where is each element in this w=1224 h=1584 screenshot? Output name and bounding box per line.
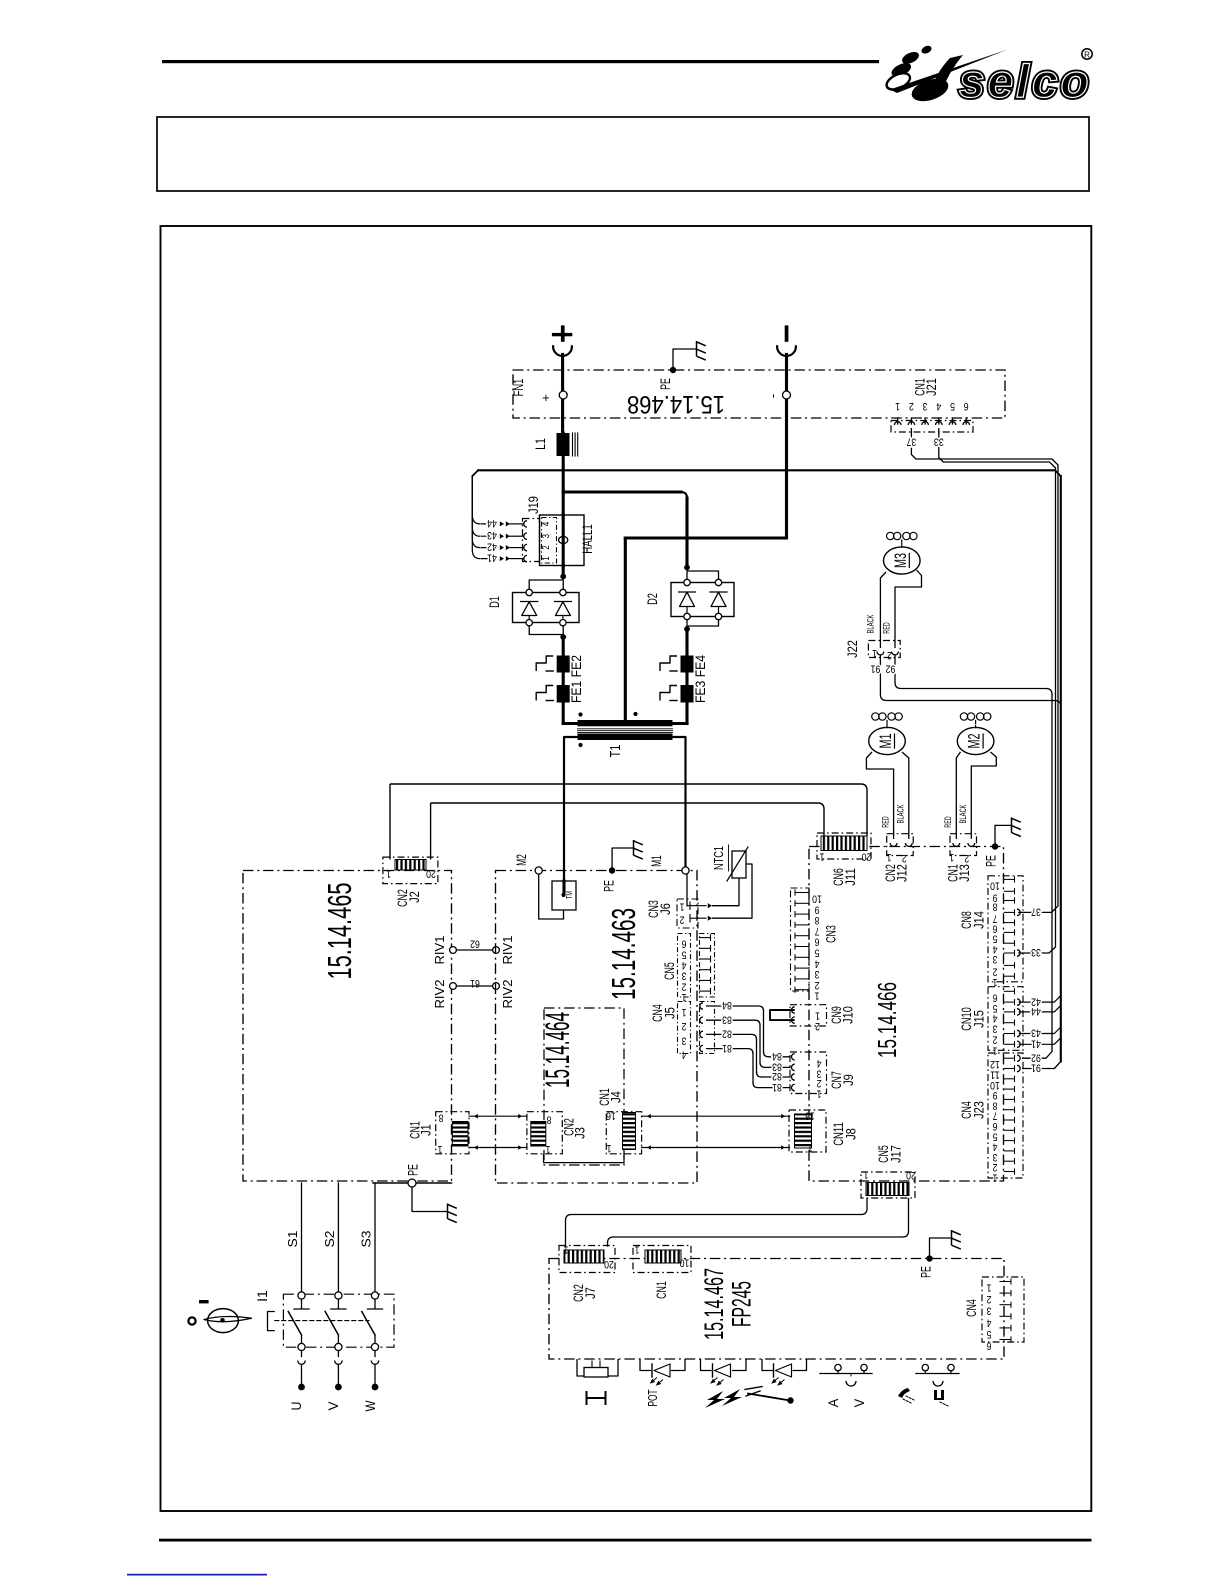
svg-text:1: 1 <box>895 400 900 412</box>
svg-text:2: 2 <box>815 979 820 991</box>
svg-text:J12: J12 <box>895 864 911 882</box>
svg-text:CN1: CN1 <box>654 1281 670 1299</box>
svg-text:J8: J8 <box>844 1128 860 1140</box>
svg-text:16: 16 <box>805 1110 815 1122</box>
svg-text:8: 8 <box>439 1112 444 1124</box>
svg-text:V: V <box>852 1399 867 1408</box>
svg-text:4: 4 <box>936 400 941 412</box>
svg-text:3: 3 <box>682 970 687 982</box>
svg-text:4: 4 <box>540 522 552 527</box>
svg-text:2: 2 <box>964 852 969 864</box>
svg-text:1: 1 <box>438 1143 443 1155</box>
svg-text:1: 1 <box>987 1282 992 1294</box>
svg-text:I1: I1 <box>255 1290 271 1302</box>
svg-text:10: 10 <box>680 1257 690 1269</box>
svg-text:9: 9 <box>993 1089 998 1101</box>
svg-text:J10: J10 <box>841 1006 857 1024</box>
svg-text:D2: D2 <box>645 593 661 605</box>
svg-text:81: 81 <box>722 1042 732 1054</box>
svg-text:6: 6 <box>682 938 687 950</box>
svg-text:selco: selco <box>959 55 1092 107</box>
svg-text:RIV1: RIV1 <box>500 936 515 965</box>
svg-text:RIV2: RIV2 <box>500 980 515 1009</box>
svg-text:J5: J5 <box>663 1007 679 1019</box>
svg-text:A: A <box>826 1399 841 1408</box>
svg-text:5: 5 <box>815 947 820 959</box>
svg-text:91: 91 <box>871 663 881 675</box>
svg-text:2: 2 <box>909 400 914 412</box>
svg-text:1: 1 <box>808 1142 813 1154</box>
svg-text:41: 41 <box>1031 1038 1041 1050</box>
svg-text:82: 82 <box>722 1028 732 1040</box>
svg-text:7: 7 <box>993 1110 998 1122</box>
svg-text:M2: M2 <box>965 734 984 749</box>
svg-text:37: 37 <box>907 436 917 448</box>
svg-text:12: 12 <box>990 1058 1000 1070</box>
svg-text:7: 7 <box>815 925 820 937</box>
svg-text:1: 1 <box>993 1044 998 1056</box>
svg-text:15.14.467: 15.14.467 <box>699 1268 729 1340</box>
svg-text:20: 20 <box>862 851 872 863</box>
svg-text:1: 1 <box>887 851 892 863</box>
svg-text:83: 83 <box>722 1013 732 1025</box>
svg-text:BLACK: BLACK <box>866 614 876 634</box>
svg-text:POT: POT <box>646 1389 660 1406</box>
svg-text:4: 4 <box>987 1316 992 1328</box>
svg-text:61: 61 <box>470 977 480 989</box>
svg-text:PE: PE <box>658 378 674 390</box>
svg-text:6: 6 <box>964 400 969 412</box>
svg-text:FN1: FN1 <box>511 379 527 397</box>
svg-text:CN5: CN5 <box>662 962 678 980</box>
svg-text:J9: J9 <box>841 1074 857 1086</box>
svg-text:84: 84 <box>722 999 732 1011</box>
svg-text:2: 2 <box>815 1020 820 1032</box>
svg-text:2: 2 <box>902 852 907 864</box>
svg-text:2: 2 <box>817 1077 822 1089</box>
svg-text:5: 5 <box>993 932 998 944</box>
svg-text:91: 91 <box>1031 1062 1041 1074</box>
svg-text:S1: S1 <box>286 1230 300 1247</box>
svg-text:8: 8 <box>547 1114 552 1126</box>
svg-text:8: 8 <box>815 914 820 926</box>
svg-text:2: 2 <box>682 1020 687 1032</box>
svg-text:+: + <box>538 394 553 402</box>
svg-text:J23: J23 <box>972 1101 988 1119</box>
svg-text:1: 1 <box>815 1010 820 1022</box>
svg-text:1: 1 <box>817 1088 822 1100</box>
svg-text:82: 82 <box>772 1070 782 1082</box>
svg-text:10: 10 <box>990 1079 1000 1091</box>
svg-text:4: 4 <box>682 959 687 971</box>
svg-text:PE: PE <box>919 1266 935 1278</box>
svg-text:W: W <box>362 1400 378 1412</box>
svg-text:3: 3 <box>993 1023 998 1035</box>
svg-text:8: 8 <box>993 901 998 913</box>
svg-text:5: 5 <box>682 948 687 960</box>
svg-text:4: 4 <box>817 1057 822 1069</box>
svg-text:10: 10 <box>990 879 1000 891</box>
svg-text:PE: PE <box>984 855 1000 867</box>
svg-text:1: 1 <box>993 1172 998 1184</box>
svg-text:FE1 FE2: FE1 FE2 <box>569 655 585 703</box>
svg-text:62: 62 <box>470 938 480 950</box>
svg-text:92: 92 <box>886 663 896 675</box>
svg-text:1: 1 <box>949 851 954 863</box>
svg-text:T1: T1 <box>607 745 624 758</box>
svg-text:3: 3 <box>815 968 820 980</box>
svg-text:4: 4 <box>815 957 820 969</box>
svg-text:1: 1 <box>540 556 552 561</box>
svg-text:44: 44 <box>487 517 497 529</box>
svg-text:20: 20 <box>906 1169 916 1181</box>
svg-text:15.14.464: 15.14.464 <box>539 1012 577 1088</box>
svg-text:D1: D1 <box>487 596 503 608</box>
svg-text:15.14.465: 15.14.465 <box>321 883 358 980</box>
svg-text:M1: M1 <box>876 734 895 749</box>
svg-text:6: 6 <box>987 1340 992 1352</box>
svg-text:3: 3 <box>987 1305 992 1317</box>
svg-text:J17: J17 <box>889 1145 905 1163</box>
svg-text:2: 2 <box>993 1034 998 1046</box>
svg-text:3: 3 <box>540 534 552 539</box>
svg-text:J6: J6 <box>658 903 674 915</box>
svg-text:9: 9 <box>815 903 820 915</box>
svg-text:J13: J13 <box>957 864 973 882</box>
svg-text:1: 1 <box>635 1244 640 1256</box>
svg-text:6: 6 <box>993 991 998 1003</box>
svg-text:43: 43 <box>487 529 497 541</box>
svg-text:1: 1 <box>546 1143 551 1155</box>
svg-text:20: 20 <box>604 1258 614 1270</box>
svg-text:15.14.468: 15.14.468 <box>627 390 725 418</box>
svg-text:1: 1 <box>607 1142 612 1154</box>
svg-text:TM: TM <box>565 891 574 899</box>
svg-text:2: 2 <box>987 1293 992 1305</box>
svg-text:1: 1 <box>820 851 825 863</box>
svg-text:6: 6 <box>815 936 820 948</box>
svg-text:FE3 FE4: FE3 FE4 <box>693 655 709 703</box>
svg-text:J19: J19 <box>526 496 542 514</box>
svg-text:J7: J7 <box>583 1287 599 1299</box>
svg-text:RED: RED <box>881 816 891 828</box>
svg-text:5: 5 <box>987 1328 992 1340</box>
svg-text:81: 81 <box>772 1081 782 1093</box>
svg-text:CN3: CN3 <box>824 925 840 943</box>
svg-text:J1: J1 <box>419 1124 435 1136</box>
svg-text:J2: J2 <box>407 891 423 903</box>
svg-text:J15: J15 <box>972 1010 988 1028</box>
svg-text:M2: M2 <box>514 854 530 866</box>
svg-text:J3: J3 <box>573 1127 589 1139</box>
svg-text:4: 4 <box>993 1012 998 1024</box>
svg-text:2: 2 <box>682 980 687 992</box>
svg-text:J4: J4 <box>609 1091 625 1103</box>
svg-text:RED: RED <box>943 816 953 828</box>
svg-text:43: 43 <box>1031 1027 1041 1039</box>
svg-text:L1: L1 <box>533 438 549 450</box>
svg-text:S2: S2 <box>323 1230 337 1247</box>
svg-text:1: 1 <box>864 1169 869 1181</box>
svg-text:6: 6 <box>993 1120 998 1132</box>
svg-text:4: 4 <box>682 1049 687 1061</box>
svg-text:84: 84 <box>772 1050 782 1062</box>
svg-text:42: 42 <box>487 541 497 553</box>
svg-text:4: 4 <box>993 1141 998 1153</box>
svg-text:J21: J21 <box>924 378 940 396</box>
svg-text:HALL1: HALL1 <box>580 524 596 554</box>
svg-text:BLACK: BLACK <box>958 804 968 824</box>
svg-text:RED: RED <box>882 622 892 634</box>
svg-text:41: 41 <box>487 552 497 564</box>
svg-text:J11: J11 <box>843 868 859 886</box>
svg-text:20: 20 <box>426 868 436 880</box>
svg-text:44: 44 <box>1031 1005 1041 1017</box>
svg-text:8: 8 <box>993 1099 998 1111</box>
svg-text:2: 2 <box>993 1161 998 1173</box>
svg-text:15.14.463: 15.14.463 <box>605 908 642 1000</box>
svg-text:3: 3 <box>923 400 928 412</box>
svg-text:-: - <box>765 394 780 398</box>
svg-text:37: 37 <box>1031 906 1041 918</box>
svg-text:CN4: CN4 <box>964 1299 980 1317</box>
svg-text:15.14.466: 15.14.466 <box>872 982 902 1058</box>
svg-text:1: 1 <box>564 1244 569 1256</box>
svg-text:11: 11 <box>990 1069 1000 1081</box>
svg-text:J22: J22 <box>845 640 861 658</box>
svg-text:M3: M3 <box>891 553 910 568</box>
svg-text:RIV1: RIV1 <box>432 936 447 965</box>
svg-text:92: 92 <box>1031 1051 1041 1063</box>
svg-text:J14: J14 <box>972 911 988 929</box>
svg-text:33: 33 <box>934 436 944 448</box>
svg-text:1: 1 <box>872 647 877 659</box>
svg-text:PE: PE <box>602 880 618 892</box>
svg-text:PE: PE <box>406 1164 422 1176</box>
svg-text:2: 2 <box>680 914 685 926</box>
svg-text:S3: S3 <box>360 1230 374 1247</box>
svg-text:1: 1 <box>682 1006 687 1018</box>
svg-text:U: U <box>288 1402 304 1411</box>
svg-text:1: 1 <box>680 901 685 913</box>
svg-text:2: 2 <box>540 545 552 550</box>
svg-text:2: 2 <box>887 649 892 661</box>
svg-text:5: 5 <box>950 400 955 412</box>
svg-text:3: 3 <box>993 953 998 965</box>
svg-text:1: 1 <box>815 990 820 1002</box>
svg-text:3: 3 <box>993 1151 998 1163</box>
svg-text:10: 10 <box>812 893 822 905</box>
svg-text:5: 5 <box>993 1130 998 1142</box>
svg-text:FP245: FP245 <box>727 1281 757 1327</box>
svg-text:RIV2: RIV2 <box>432 980 447 1009</box>
svg-text:16: 16 <box>606 1110 616 1122</box>
svg-text:1: 1 <box>386 867 391 879</box>
svg-text:R: R <box>1084 51 1090 60</box>
svg-text:33: 33 <box>1031 946 1041 958</box>
svg-text:NTC1: NTC1 <box>711 846 726 870</box>
svg-text:3: 3 <box>682 1034 687 1046</box>
svg-text:M1: M1 <box>649 855 665 867</box>
svg-text:2: 2 <box>993 965 998 977</box>
svg-text:BLACK: BLACK <box>896 804 906 824</box>
svg-text:V: V <box>325 1401 341 1411</box>
